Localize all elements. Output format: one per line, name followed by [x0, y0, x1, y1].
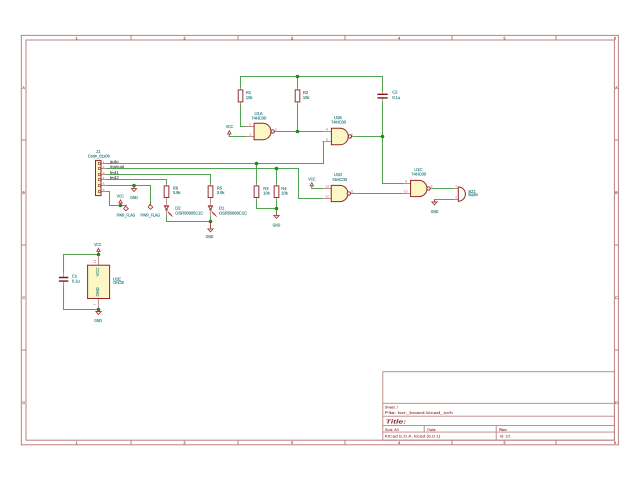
svg-text:74HC00: 74HC00 — [251, 116, 267, 121]
svg-text:led2: led2 — [110, 175, 120, 180]
svg-text:1: 1 — [103, 160, 105, 164]
svg-text:6: 6 — [351, 133, 353, 137]
svg-text:VCC: VCC — [117, 194, 124, 199]
svg-text:3: 3 — [275, 128, 277, 132]
svg-text:1: 1 — [455, 185, 457, 189]
svg-text:manual: manual — [110, 164, 124, 169]
svg-text:GND: GND — [95, 287, 100, 296]
svg-text:Sheet: /: Sheet: / — [385, 405, 399, 409]
svg-text:GND: GND — [273, 222, 281, 227]
svg-text:PWR_FLAG: PWR_FLAG — [141, 213, 161, 218]
svg-text:10k: 10k — [281, 191, 288, 196]
svg-text:VCC: VCC — [95, 268, 100, 277]
svg-text:2: 2 — [183, 441, 185, 445]
svg-text:74HC00: 74HC00 — [411, 172, 427, 177]
svg-text:12: 12 — [325, 195, 329, 199]
svg-text:A: A — [22, 86, 25, 90]
svg-text:4: 4 — [398, 441, 400, 445]
svg-text:6: 6 — [614, 441, 616, 445]
svg-text:OSR50805C1C: OSR50805C1C — [219, 211, 247, 216]
svg-text:6: 6 — [103, 188, 105, 192]
svg-text:3.9k: 3.9k — [217, 190, 226, 195]
svg-text:10k: 10k — [263, 191, 270, 196]
svg-text:4: 4 — [103, 176, 105, 180]
svg-text:1: 1 — [249, 133, 251, 137]
svg-text:74HC00: 74HC00 — [332, 177, 348, 182]
svg-text:5: 5 — [103, 182, 105, 186]
svg-text:Id: 1/1: Id: 1/1 — [500, 435, 511, 439]
svg-text:B: B — [615, 191, 618, 195]
svg-text:0.1u: 0.1u — [392, 95, 401, 100]
svg-text:74HC00: 74HC00 — [113, 280, 125, 285]
svg-text:74HC00: 74HC00 — [331, 120, 347, 125]
svg-text:VCC: VCC — [226, 124, 233, 129]
svg-text:3: 3 — [291, 36, 293, 40]
svg-text:4: 4 — [398, 36, 400, 40]
svg-text:2: 2 — [455, 196, 457, 200]
svg-text:OSR50805C1C: OSR50805C1C — [175, 211, 203, 216]
svg-text:Date:: Date: — [427, 428, 436, 432]
svg-text:5: 5 — [503, 36, 505, 40]
svg-text:7: 7 — [93, 303, 97, 305]
svg-text:6: 6 — [614, 36, 616, 40]
svg-text:3.9k: 3.9k — [173, 190, 182, 195]
svg-text:Size: A4: Size: A4 — [385, 428, 399, 432]
svg-text:13: 13 — [325, 185, 329, 189]
svg-text:2: 2 — [183, 36, 185, 40]
svg-text:C: C — [22, 296, 25, 300]
svg-text:Title:: Title: — [386, 419, 407, 426]
svg-text:0.1u: 0.1u — [72, 278, 81, 283]
svg-text:Rev:: Rev: — [499, 428, 507, 432]
svg-text:1: 1 — [75, 36, 77, 40]
svg-text:PWR_FLAG: PWR_FLAG — [117, 213, 136, 218]
svg-text:8: 8 — [431, 185, 433, 189]
svg-text:D: D — [615, 401, 618, 405]
svg-text:3: 3 — [291, 441, 293, 445]
svg-text:10k: 10k — [303, 95, 310, 100]
svg-text:1: 1 — [75, 441, 77, 445]
svg-text:GND: GND — [130, 195, 138, 200]
svg-text:5: 5 — [326, 138, 328, 142]
svg-text:GND: GND — [206, 234, 214, 239]
svg-text:GND: GND — [94, 318, 102, 323]
svg-text:KiCad E.D.A. kicad (6.0.1): KiCad E.D.A. kicad (6.0.1) — [385, 435, 441, 439]
svg-text:C: C — [615, 296, 618, 300]
svg-text:A: A — [615, 86, 618, 90]
svg-text:Conn_01x06: Conn_01x06 — [88, 153, 111, 158]
svg-text:B: B — [22, 191, 25, 195]
svg-text:2: 2 — [249, 123, 251, 127]
svg-text:9: 9 — [405, 180, 407, 184]
svg-text:File: bzr_board.kicad_sch: File: bzr_board.kicad_sch — [385, 411, 453, 415]
svg-text:3: 3 — [103, 171, 105, 175]
svg-text:11: 11 — [350, 190, 354, 194]
svg-text:D: D — [22, 401, 25, 405]
svg-text:14: 14 — [93, 260, 97, 264]
svg-text:VCC: VCC — [308, 177, 315, 182]
svg-text:5: 5 — [503, 441, 505, 445]
svg-text:10: 10 — [404, 190, 408, 194]
svg-text:2: 2 — [103, 165, 105, 169]
svg-text:VCC: VCC — [94, 242, 101, 247]
svg-text:GND: GND — [431, 209, 439, 214]
svg-text:10k: 10k — [246, 95, 253, 100]
svg-text:4: 4 — [326, 128, 328, 132]
svg-text:Buzzer: Buzzer — [468, 192, 478, 197]
